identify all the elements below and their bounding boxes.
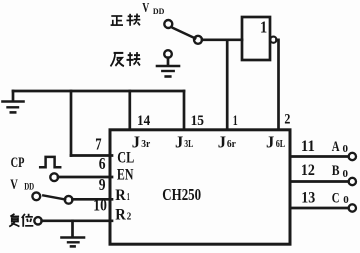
terminal 复位 (open circle) (34, 217, 41, 224)
switch S1 contact 反转 + ground G2 (157, 50, 179, 76)
svg-text:14: 14 (137, 113, 151, 129)
switch S1 pole to inverter wire (202, 38, 242, 41)
svg-text:DD: DD (153, 6, 165, 16)
switch S1 arm (173, 28, 195, 38)
svg-text:12: 12 (301, 162, 315, 179)
svg-text:10: 10 (93, 196, 107, 215)
terminal B0 (open circle) (349, 178, 356, 185)
terminal C0 (open circle) (349, 204, 356, 211)
svg-text:13: 13 (301, 189, 315, 206)
svg-text:CP: CP (11, 155, 25, 171)
svg-text:1: 1 (233, 113, 238, 129)
wire pin14 riser (128, 91, 131, 129)
svg-text:0: 0 (343, 144, 349, 155)
svg-text:3L: 3L (184, 138, 193, 150)
svg-text:R: R (115, 187, 126, 204)
switch S2 contact VDD (32, 192, 40, 200)
svg-text:1: 1 (260, 18, 267, 37)
wire pin11 (A0) (291, 155, 349, 158)
wire pin9 (R1) (72, 198, 112, 201)
svg-text:J: J (218, 132, 226, 151)
wire pin12 (B0) (291, 180, 349, 183)
svg-text:2: 2 (127, 212, 132, 223)
wire pin6 (EN) (58, 176, 112, 179)
svg-text:6L: 6L (276, 138, 286, 150)
switch S1 pole (194, 36, 202, 44)
svg-text:R: R (115, 206, 126, 223)
switch S2 pole (65, 196, 73, 204)
svg-text:V: V (10, 177, 18, 193)
svg-text:C: C (332, 190, 340, 206)
svg-text:0: 0 (343, 169, 349, 180)
svg-text:6: 6 (99, 154, 106, 173)
svg-text:J: J (266, 132, 274, 151)
wire pin1 riser (226, 40, 229, 129)
terminal CP input (open circle) (50, 173, 58, 181)
wire inverter output to pin2 (277, 40, 279, 129)
terminal A0 (open circle) (349, 153, 356, 160)
svg-text:7: 7 (95, 134, 102, 153)
IC U1 CH250 body (110, 130, 290, 244)
wire pin7 riser (70, 91, 73, 156)
switch S1 contact VDD (164, 20, 172, 28)
inverter U2 output bubble (270, 37, 276, 43)
switch S2 arm (43, 195, 65, 199)
svg-text:3r: 3r (141, 138, 150, 150)
svg-text:V: V (142, 1, 149, 16)
ground G1 (top-left) (3, 91, 24, 112)
label 反转 (reverse) hand-drawn CJK (111, 52, 141, 66)
svg-text:CH250: CH250 (162, 185, 201, 204)
svg-text:2: 2 (284, 112, 290, 128)
svg-text:J: J (175, 132, 183, 151)
svg-text:EN: EN (117, 166, 134, 183)
svg-text:11: 11 (301, 138, 315, 155)
svg-text:CL: CL (117, 149, 134, 166)
wire pin15 riser (183, 91, 186, 129)
svg-text:1: 1 (127, 192, 130, 203)
wire pin13 (C0) (291, 207, 349, 210)
ground G3 (on reset line) (62, 221, 85, 247)
label 正转 (forward) hand-drawn CJK (111, 14, 141, 26)
svg-text:B: B (332, 163, 340, 179)
svg-text:DD: DD (24, 182, 34, 192)
CP pulse symbol (40, 157, 60, 167)
svg-text:15: 15 (191, 113, 204, 129)
wire top bus (VSS rail) (13, 90, 184, 93)
svg-text:A: A (332, 139, 340, 155)
wire pin7 (CL) (71, 154, 112, 157)
inverter U2 (IEC "1") (242, 17, 270, 60)
svg-text:9: 9 (99, 175, 106, 194)
label 复位 (reset) hand-drawn CJK (9, 214, 33, 227)
wire pin10 (R2) (42, 219, 112, 222)
svg-text:6r: 6r (227, 138, 236, 150)
svg-text:0: 0 (343, 195, 349, 206)
